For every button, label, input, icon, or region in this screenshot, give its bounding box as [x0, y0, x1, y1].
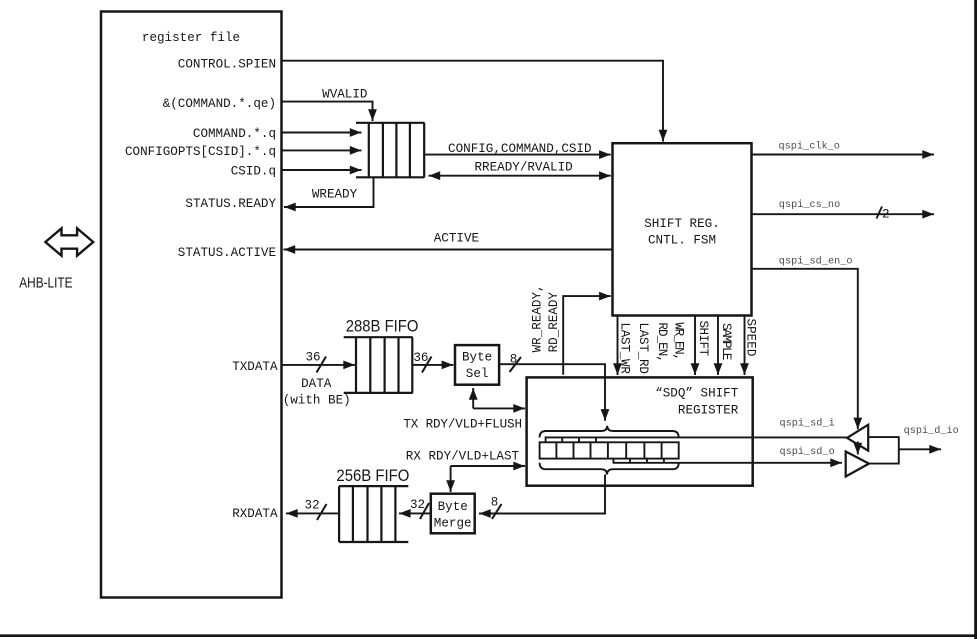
svg-text:COMMAND.*.q: COMMAND.*.q [193, 127, 276, 141]
input pad buffer (tristate, left pointing) [847, 425, 868, 451]
svg-text:Byte: Byte [438, 500, 468, 514]
svg-text:SHIFT: SHIFT [696, 321, 710, 357]
svg-text:WREADY: WREADY [312, 187, 358, 201]
control arrow SAMPLE [717, 316, 719, 376]
svg-text:36: 36 [305, 350, 320, 364]
output pad buffer (tristate, right pointing) [846, 452, 869, 477]
svg-text:LAST_WR: LAST_WR [617, 322, 631, 374]
svg-text:AHB-LITE: AHB-LITE [19, 275, 72, 292]
wire 32 Byte Merge to 256B FIFO [399, 498, 431, 519]
288B TX FIFO [344, 337, 413, 393]
wire RREADY/RVALID bidirectional [429, 161, 611, 176]
wire WR_READY,RD_READY from SDQ to FSM [563, 296, 611, 375]
output qspi_cs_no with /2 width slash [752, 199, 935, 221]
svg-text:32: 32 [410, 498, 425, 512]
svg-text:SPEED: SPEED [743, 319, 757, 357]
top brace [540, 426, 679, 438]
svg-text:LAST_RD: LAST_RD [636, 322, 650, 374]
SHIFT REG. CNTL. FSM block [613, 143, 752, 315]
shift register top shallow cells [562, 437, 596, 442]
wire TXDATA 36 into 288B FIFO [282, 350, 356, 407]
output qspi_sd_en_o down to pad buffers [752, 256, 858, 430]
control arrow SHIFT [694, 316, 696, 376]
svg-text:32: 32 [305, 499, 320, 513]
svg-text:288B FIFO: 288B FIFO [346, 317, 419, 336]
wire 36 FIFO to Byte Sel [413, 351, 454, 373]
wire 8 Byte Sel to SDQ shift register [499, 353, 605, 421]
wire RXDATA 32 to register file [286, 499, 339, 520]
256B RX FIFO [339, 486, 408, 542]
svg-text:qspi_sd_en_o: qspi_sd_en_o [779, 256, 853, 268]
page bottom border [0, 634, 977, 637]
control arrow SPEED [744, 316, 746, 376]
enable arrow into output buffer [857, 442, 859, 455]
svg-text:CONFIG,COMMAND,CSID: CONFIG,COMMAND,CSID [448, 142, 592, 156]
svg-text:qspi_sd_i: qspi_sd_i [780, 418, 835, 430]
svg-text:WR_EN,: WR_EN, [671, 322, 685, 361]
svg-text:&(COMMAND.*.qe): &(COMMAND.*.qe) [163, 97, 276, 111]
bottom brace [540, 463, 679, 475]
svg-text:CONFIGOPTS[CSID].*.q: CONFIGOPTS[CSID].*.q [125, 145, 276, 159]
svg-text:DATA: DATA [301, 377, 332, 391]
wire 8 SDQ down to Byte Merge [479, 475, 605, 520]
Byte Merge block [431, 494, 475, 534]
svg-text:STATUS.ACTIVE: STATUS.ACTIVE [178, 246, 276, 260]
svg-text:RX RDY/VLD+LAST: RX RDY/VLD+LAST [406, 449, 520, 463]
svg-text:qspi_clk_o: qspi_clk_o [779, 141, 840, 153]
svg-text:SAMPLE: SAMPLE [719, 323, 733, 361]
svg-text:RXDATA: RXDATA [232, 507, 278, 521]
shift register bottom shallow cells [630, 459, 664, 463]
svg-text:register file: register file [142, 31, 240, 45]
wire qspi_sd_i from input pad buffer into shift register [546, 418, 847, 443]
svg-text:(with BE): (with BE) [283, 393, 351, 407]
wire WREADY back to STATUS.READY [284, 177, 374, 207]
svg-text:STATUS.READY: STATUS.READY [185, 197, 276, 211]
svg-text:CONTROL.SPIEN: CONTROL.SPIEN [178, 58, 276, 72]
svg-text:REGISTER: REGISTER [678, 404, 739, 418]
svg-text:256B FIFO: 256B FIFO [336, 466, 409, 485]
svg-text:SHIFT REG.: SHIFT REG. [644, 217, 720, 231]
svg-text:CSID.q: CSID.q [231, 164, 276, 178]
svg-text:CNTL. FSM: CNTL. FSM [648, 234, 716, 248]
AHB-LITE bus double arrow [19, 228, 93, 291]
Byte Sel block [455, 345, 499, 385]
svg-text:RD_EN,: RD_EN, [655, 322, 669, 363]
svg-text:WR_READY,: WR_READY, [531, 284, 545, 352]
SDQ SHIFT REGISTER block [527, 377, 753, 485]
register file block U_REGFILE [101, 12, 282, 598]
svg-text:Byte: Byte [462, 350, 492, 364]
wire CSID.q into write FIFO [282, 169, 362, 171]
svg-text:“SDQ” SHIFT: “SDQ” SHIFT [655, 386, 739, 400]
svg-text:8: 8 [491, 496, 499, 510]
output qspi_d_io [899, 425, 959, 449]
svg-text:ACTIVE: ACTIVE [434, 231, 479, 245]
svg-text:qspi_cs_no: qspi_cs_no [779, 199, 840, 211]
wire ACTIVE to STATUS.ACTIVE [284, 231, 613, 249]
svg-text:TXDATA: TXDATA [232, 360, 278, 374]
svg-text:2: 2 [882, 208, 890, 222]
wire RX RDY/VLD+LAST between SDQ and Byte Merge [406, 449, 525, 492]
svg-text:RD_READY: RD_READY [547, 292, 561, 353]
svg-text:36: 36 [413, 351, 428, 365]
shift register cells main row [540, 442, 679, 458]
wire COMMAND.*.q into write FIFO [282, 132, 362, 134]
svg-text:Merge: Merge [434, 517, 472, 531]
pad connection loop [868, 437, 899, 464]
wire CONFIG,COMMAND,CSID to FSM [425, 142, 611, 156]
svg-text:TX RDY/VLD+FLUSH: TX RDY/VLD+FLUSH [403, 418, 522, 432]
write command FIFO [356, 123, 425, 178]
svg-text:WVALID: WVALID [322, 87, 367, 101]
FSM to SDQ control arrows LAST_WR,LAST_RD,RD_EN,WR_EN [617, 316, 619, 376]
wire CONTROL.SPIEN to FSM top [282, 61, 664, 142]
page right border [974, 0, 977, 639]
wire qspi_sd_o from shift register to output pad buffer [614, 446, 843, 463]
svg-text:RREADY/RVALID: RREADY/RVALID [475, 161, 573, 175]
wire TX RDY/VLD+FLUSH between Byte Sel and SDQ [403, 388, 525, 432]
svg-text:qspi_d_io: qspi_d_io [904, 425, 959, 437]
svg-text:Sel: Sel [466, 367, 489, 381]
wire CONFIGOPTS[CSID].*.q into write FIFO [282, 149, 362, 151]
svg-text:qspi_sd_o: qspi_sd_o [780, 446, 835, 458]
wire WVALID into write FIFO top [282, 87, 373, 121]
output qspi_clk_o [752, 141, 935, 155]
